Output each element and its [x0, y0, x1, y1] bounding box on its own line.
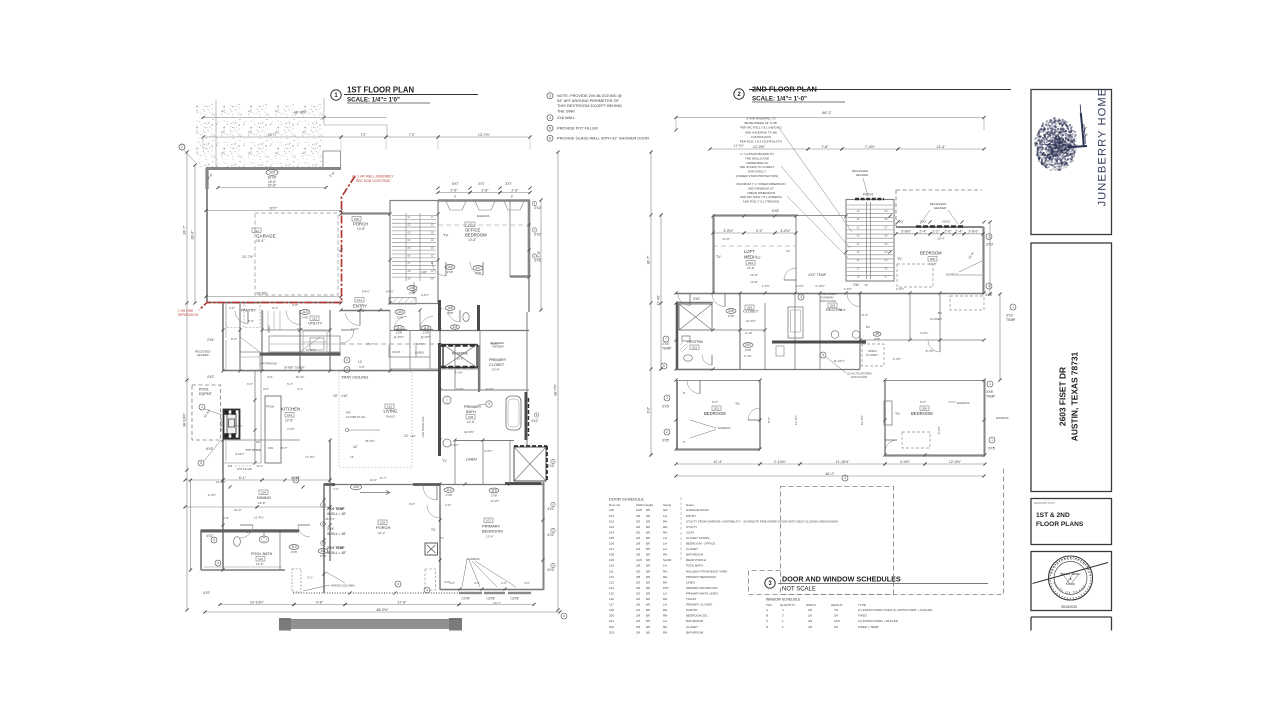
svg-text:4'-0½": 4'-0½" — [900, 460, 911, 464]
svg-text:8’: 8’ — [511, 195, 514, 199]
svg-text:GARAGE DOOR: GARAGE DOOR — [686, 508, 710, 512]
svg-text:BEDROOM: BEDROOM — [920, 251, 942, 256]
garage walls — [206, 151, 341, 303]
svg-text:112: 112 — [254, 229, 259, 233]
svg-text:D/W: D/W — [268, 446, 274, 450]
svg-text:RESERVE: RESERVE — [452, 352, 469, 356]
svg-text:TRASH: TRASH — [266, 405, 275, 409]
plan1 scattered tick arrows — [221, 186, 544, 594]
svg-text:PRIMARY BATHROOM: PRIMARY BATHROOM — [686, 586, 718, 590]
svg-text:4/0: 4/0 — [808, 625, 813, 629]
svg-text:2/6: 2/6 — [636, 630, 641, 634]
svg-text:WIDTH: WIDTH — [806, 603, 816, 607]
section cut gray bar — [279, 618, 462, 631]
svg-text:3'-8": 3'-8" — [481, 188, 489, 192]
svg-text:3'X2': 3'X2' — [534, 206, 542, 210]
svg-text:107: 107 — [486, 519, 491, 523]
svg-text:109: 109 — [609, 558, 614, 562]
extension line above garage — [215, 100, 217, 167]
svg-text:2/0: 2/0 — [636, 530, 641, 534]
primary bedroom label and tv niche — [423, 486, 516, 590]
svg-text:POT FILLER: POT FILLER — [246, 448, 261, 452]
svg-text:1: 1 — [991, 438, 993, 442]
svg-text:107: 107 — [475, 266, 481, 270]
closets under stairs tags — [362, 262, 483, 295]
svg-text:8-10½": 8-10½" — [236, 452, 245, 456]
svg-text:LH: LH — [663, 591, 667, 595]
svg-text:THE STAIRS TO COMPLY: THE STAIRS TO COMPLY — [739, 165, 775, 169]
svg-text:B4: B4 — [866, 325, 870, 329]
svg-text:TAG: TAG — [766, 603, 773, 607]
svg-text:POOL BATH: POOL BATH — [686, 564, 703, 568]
svg-text:1ST FLOOR PLAN: 1ST FLOOR PLAN — [347, 86, 415, 95]
svg-text:FIXED + TEMP: FIXED + TEMP — [858, 625, 879, 629]
svg-text:BATHROOM: BATHROOM — [686, 630, 704, 634]
svg-text:2'-10": 2'-10" — [745, 331, 753, 335]
svg-text:CLOSET: CLOSET — [686, 547, 698, 551]
svg-text:4'X2': 4'X2' — [531, 419, 539, 423]
svg-text:100: 100 — [269, 171, 275, 175]
svg-text:PANTRY: PANTRY — [686, 608, 698, 612]
svg-text:17'-0½": 17'-0½" — [305, 455, 315, 459]
svg-text:110: 110 — [609, 564, 614, 568]
svg-text:9'-0": 9'-0" — [920, 400, 926, 404]
svg-text:HEADER: HEADER — [197, 353, 209, 357]
svg-text:9/0: 9/0 — [646, 514, 651, 518]
svg-text:110: 110 — [302, 310, 308, 314]
svg-text:205: 205 — [930, 257, 935, 261]
svg-text:POT FILLER: POT FILLER — [237, 467, 252, 471]
svg-text:6'-1": 6'-1" — [272, 306, 278, 310]
svg-text:2/4: 2/4 — [636, 547, 641, 551]
svg-text:15': 15' — [757, 256, 761, 260]
svg-text:PER IRC R311.7.8.1 (HEIGHT): PER IRC R311.7.8.1 (HEIGHT) — [740, 126, 782, 130]
svg-text:D/4: D/4 — [256, 440, 261, 444]
svg-text:GARAGE: GARAGE — [256, 234, 276, 239]
address box — [1031, 243, 1112, 492]
svg-text:13'-6": 13'-6" — [486, 535, 494, 539]
svg-text:EGRESS: EGRESS — [957, 401, 970, 405]
svg-text:HEADER: HEADER — [934, 206, 947, 210]
svg-text:103: 103 — [609, 525, 614, 529]
description box — [1031, 499, 1112, 545]
svg-text:2603 FISET DR: 2603 FISET DR — [1058, 367, 1068, 426]
pantry utility mud labels — [231, 303, 405, 352]
svg-text:28'-7": 28'-7" — [183, 225, 187, 235]
plan2 scattered ticks — [649, 128, 986, 456]
svg-text:09/16/2025: 09/16/2025 — [1061, 605, 1077, 609]
svg-text:ENTRY: ENTRY — [353, 304, 367, 309]
plan2 linen closets right band — [862, 296, 984, 366]
svg-text:RH: RH — [663, 553, 667, 557]
svg-text:38'-10½": 38'-10½" — [183, 412, 187, 427]
svg-text:PANTRY: PANTRY — [241, 309, 257, 313]
bedroom 205 label — [897, 251, 982, 288]
svg-text:FIXED: FIXED — [858, 614, 868, 618]
svg-text:HEIGHT: HEIGHT — [831, 603, 843, 607]
svg-text:36" RANGE: 36" RANGE — [220, 418, 223, 431]
svg-text:4'-6½": 4'-6½" — [920, 331, 928, 335]
plan1 left wall inner lines — [189, 306, 282, 572]
svg-text:12': 12' — [404, 434, 409, 438]
svg-text:4'-6½": 4'-6½" — [450, 443, 458, 447]
svg-text:DOOR AND WINDOW SCHEDULES: DOOR AND WINDOW SCHEDULES — [782, 575, 901, 584]
svg-text:12': 12' — [358, 360, 363, 364]
schedule dashed boundary — [749, 468, 1004, 595]
svg-text:RH: RH — [663, 575, 667, 579]
svg-text:8’: 8’ — [454, 195, 457, 199]
plan1 interior walls — [201, 300, 529, 570]
svg-text:116: 116 — [491, 489, 497, 493]
svg-text:2'X8': 2'X8' — [291, 550, 298, 554]
svg-text:D/4: D/4 — [228, 464, 233, 468]
garage labels — [204, 170, 342, 298]
svg-text:EGRESS: EGRESS — [946, 273, 959, 277]
window schedule — [766, 598, 933, 629]
architect stamp seal — [1033, 556, 1109, 609]
svg-text:103: 103 — [397, 310, 403, 314]
svg-text:114: 114 — [609, 586, 614, 590]
svg-text:4'-6½": 4'-6½" — [896, 287, 904, 291]
svg-text:2/8: 2/8 — [636, 575, 641, 579]
svg-text:␴2'X3': ␴2'X3' — [920, 220, 927, 224]
svg-text:BATHROOM: BATHROOM — [686, 619, 704, 623]
svg-text:TV: TV — [735, 402, 740, 406]
svg-text:AND HANDRAIL TO BE: AND HANDRAIL TO BE — [745, 130, 777, 134]
svg-text:2/6: 2/6 — [636, 625, 641, 629]
svg-text:DESCRIPTION: DESCRIPTION — [1034, 501, 1055, 505]
svg-text:MAXIMUM 7 ¾" RISER DIMENSION: MAXIMUM 7 ¾" RISER DIMENSION — [736, 182, 785, 186]
svg-text:MUD: MUD — [267, 325, 271, 333]
svg-text:7'2": 7'2" — [361, 133, 368, 137]
svg-text:LINEN: LINEN — [686, 580, 695, 584]
svg-text:13'-4": 13'-4" — [936, 145, 946, 149]
svg-text:201: 201 — [609, 619, 614, 623]
svg-text:2ND FLOOR: 2ND FLOOR — [820, 299, 836, 303]
svg-text:8/0: 8/0 — [646, 625, 651, 629]
svg-text:4'-0½": 4'-0½" — [796, 284, 804, 288]
plan1 bottom window tags and dims — [203, 576, 567, 620]
svg-text:4'X2': 4'X2' — [547, 568, 555, 572]
red 1hr fire separation wall — [178, 175, 394, 318]
svg-text:HRT/FRIDGE: HRT/FRIDGE — [261, 362, 278, 366]
svg-text:113: 113 — [312, 317, 317, 321]
svg-text:12'-0": 12'-0" — [370, 478, 377, 482]
svg-text:4'-8": 4'-8" — [229, 306, 235, 310]
svg-text:WOOD COLUMN: WOOD COLUMN — [331, 584, 355, 588]
plan1 kitchen counter lines — [223, 304, 327, 464]
svg-text:20'7": 20'7" — [268, 133, 277, 137]
svg-text:2'X8': 2'X8' — [409, 291, 416, 295]
svg-text:36'-0½": 36'-0½" — [325, 517, 335, 521]
svg-text:EGRESS: EGRESS — [467, 557, 480, 561]
svg-text:K": K" — [440, 327, 443, 331]
svg-text:11'-0½": 11'-0½" — [306, 348, 316, 352]
svg-text:8/0: 8/0 — [646, 530, 651, 534]
svg-text:RH: RH — [663, 608, 667, 612]
svg-text:W.SILL = 48": W.SILL = 48" — [327, 512, 347, 516]
svg-text:8/0: 8/0 — [646, 525, 651, 529]
svg-text:RH: RH — [663, 525, 667, 529]
svg-text:Width Height: Width Height — [636, 503, 653, 507]
svg-text:2'-6½": 2'-6½" — [456, 387, 464, 391]
svg-text:×12': ×12' — [410, 434, 416, 438]
architect stamp box — [1031, 552, 1112, 611]
svg-text:36'-0½": 36'-0½" — [365, 439, 375, 443]
svg-text:2'X8': 2'X8' — [491, 494, 498, 498]
plan2 stairs — [847, 202, 893, 287]
svg-text:CLOSET: CLOSET — [930, 317, 942, 321]
svg-text:3/0: 3/0 — [808, 608, 813, 612]
svg-text:LINEN: LINEN — [466, 458, 477, 462]
svg-text:PRIMARY BEDROOM: PRIMARY BEDROOM — [686, 575, 716, 579]
plan1 interior dim scatter — [228, 306, 499, 584]
svg-text:7'-4½": 7'-4½" — [865, 145, 876, 149]
svg-text:3'-8": 3'-8" — [449, 581, 455, 585]
svg-text:205: 205 — [747, 306, 752, 310]
window sill labels left of rear porch — [321, 503, 347, 555]
svg-text:3'X5': 3'X5' — [988, 447, 996, 451]
svg-text:2/0: 2/0 — [636, 580, 641, 584]
svg-text:LH: LH — [663, 564, 667, 568]
juneberry tree logo — [1034, 105, 1087, 171]
plan1 stairs — [392, 213, 436, 293]
svg-text:TV: TV — [431, 528, 436, 532]
plan2 4x2 temp tag — [762, 273, 904, 291]
svg-text:MEDIA: MEDIA — [744, 255, 757, 260]
svg-text:2/6: 2/6 — [636, 619, 641, 623]
svg-text:5'-4": 5'-4" — [297, 387, 303, 391]
svg-text:Swing: Swing — [663, 503, 672, 507]
svg-text:FLOOR PLUG: FLOOR PLUG — [346, 415, 366, 419]
svg-text:PORCH: PORCH — [376, 525, 391, 530]
svg-text:SCALE: 1/4"= 1'0": SCALE: 1/4"= 1'0" — [347, 97, 400, 104]
svg-text:2'-8": 2'-8" — [223, 516, 229, 520]
svg-text:12'-8": 12'-8" — [285, 419, 293, 423]
svg-text:2'-10½": 2'-10½" — [774, 460, 787, 464]
svg-text:2'-4": 2'-4" — [955, 230, 963, 234]
svg-text:CLOSET: CLOSET — [743, 310, 759, 314]
svg-text:2'X8': 2'X8' — [447, 270, 454, 274]
svg-text:3: 3 — [488, 402, 490, 406]
svg-text:3'X5': 3'X5' — [662, 439, 670, 443]
svg-text:2: 2 — [666, 430, 668, 434]
svg-text:LH: LH — [663, 547, 667, 551]
svg-text:19'-4": 19'-4" — [256, 239, 265, 243]
svg-text:108: 108 — [468, 415, 473, 419]
svg-text:11'-8½": 11'-8½" — [216, 480, 226, 484]
svg-text:111: 111 — [609, 569, 614, 573]
svg-text:3'-0½": 3'-0½" — [723, 229, 734, 233]
svg-text:BEDROOM: BEDROOM — [482, 529, 503, 534]
svg-text:111: 111 — [320, 549, 325, 553]
svg-text:PROVIDE GLASS WALL WITH 32" SH: PROVIDE GLASS WALL WITH 32" SHOWER DOOR — [557, 136, 649, 141]
svg-text:4: 4 — [549, 116, 551, 120]
sheet title 2nd floor plan — [734, 85, 1011, 103]
kitchen label — [203, 405, 300, 498]
svg-text:2/6: 2/6 — [834, 625, 839, 629]
svg-text:12'4½": 12'4½" — [234, 424, 243, 428]
svg-text:8'-0": 8'-0" — [248, 319, 254, 323]
pool bath fixtures and label — [201, 516, 328, 566]
entry label — [353, 298, 367, 313]
porch label — [352, 217, 368, 231]
svg-text:12'-4": 12'-4" — [713, 460, 723, 464]
svg-text:10'-2": 10'-2" — [378, 531, 386, 535]
svg-text:8/0: 8/0 — [646, 519, 651, 523]
sheet title 1st floor plan — [331, 86, 478, 104]
svg-text:10'-8": 10'-8" — [456, 357, 463, 361]
svg-text:AUSTIN, TEXAS 78731: AUSTIN, TEXAS 78731 — [1070, 351, 1080, 441]
svg-text:BATH: BATH — [466, 410, 476, 414]
svg-text:2'-10": 2'-10" — [744, 354, 752, 358]
svg-text:20'-7½": 20'-7½" — [242, 255, 254, 259]
svg-text:7/0: 7/0 — [834, 608, 839, 612]
svg-text:CLOSET: CLOSET — [686, 625, 698, 629]
plan1 left tags and recessed header notes — [195, 338, 214, 595]
svg-text:THE WALLS AND: THE WALLS AND — [745, 156, 770, 160]
svg-text:46'-2": 46'-2" — [822, 111, 832, 115]
svg-text:VAULT: VAULT — [386, 415, 395, 419]
primary closet label — [489, 341, 507, 372]
svg-text:106: 106 — [447, 265, 453, 269]
svg-text:(1) 3/0X2/0 FIXED OVER (1) 3/0: (1) 3/0X2/0 FIXED OVER (1) 3/0X5/0 CSMT … — [858, 608, 933, 612]
svg-text:8/0: 8/0 — [646, 608, 651, 612]
svg-text:205: 205 — [728, 309, 734, 313]
svg-text:8/0: 8/0 — [646, 586, 651, 590]
svg-text:COAT: COAT — [392, 350, 400, 354]
svg-text:2'-6": 2'-6" — [450, 188, 458, 192]
svg-text:4'-10½": 4'-10½" — [815, 284, 825, 288]
svg-text:10'-0½": 10'-0½" — [490, 499, 499, 503]
plan2 left restroom X closet — [661, 297, 712, 369]
svg-text:19: 19 — [864, 283, 868, 287]
svg-text:BEDROOM: BEDROOM — [465, 233, 487, 238]
svg-text:TEMP: TEMP — [662, 347, 672, 351]
svg-text:20'7": 20'7" — [270, 206, 279, 210]
svg-text:POOL: POOL — [199, 388, 209, 392]
svg-text:3'-0½": 3'-0½" — [780, 229, 791, 233]
svg-text:BEDROOM: BEDROOM — [704, 411, 726, 416]
svg-text:106: 106 — [609, 542, 614, 546]
svg-text:2/4: 2/4 — [636, 597, 641, 601]
svg-text:TRAY CEILING: TRAY CEILING — [341, 375, 368, 380]
svg-text:9-4½": 9-4½" — [362, 290, 370, 294]
svg-text:115: 115 — [609, 591, 614, 595]
svg-text:1ST & 2ND: 1ST & 2ND — [1036, 512, 1070, 519]
svg-text:@ 4'6½": @ 4'6½" — [421, 335, 432, 339]
svg-text:3'-8": 3'-8" — [444, 580, 450, 584]
kitchen range dark fixture — [220, 410, 240, 439]
svg-text:100: 100 — [609, 508, 614, 512]
kitchen cabinets and dark counter bar — [240, 336, 341, 370]
svg-text:201: 201 — [714, 407, 719, 411]
svg-text:12'-0½": 12'-0½" — [794, 415, 798, 425]
svg-text:117: 117 — [609, 603, 614, 607]
svg-text:2'X8': 2'X8' — [728, 314, 735, 318]
svg-text:¾" GYPSUM BOARD TO: ¾" GYPSUM BOARD TO — [740, 152, 774, 156]
svg-text:BATHROOM: BATHROOM — [686, 553, 704, 557]
svg-text:PRIMARY: PRIMARY — [489, 358, 507, 362]
svg-text:Notes: Notes — [686, 503, 694, 507]
svg-text:TV: TV — [440, 536, 444, 540]
plan2 double vanity dark counter — [680, 331, 872, 379]
plan2 recessed headers dark dashes — [852, 169, 985, 241]
svg-text:2/0: 2/0 — [636, 591, 641, 595]
plan2 exterior walls — [676, 190, 985, 456]
svg-text:12'-0½": 12'-0½" — [753, 145, 766, 149]
svg-text:CLOSET: CLOSET — [866, 353, 878, 357]
svg-text:12/0: 12/0 — [636, 558, 642, 562]
svg-text:4'-0½": 4'-0½" — [491, 342, 499, 346]
svg-text:162: 162 — [387, 405, 392, 409]
svg-text:8/0: 8/0 — [646, 536, 651, 540]
svg-text:TEMP: TEMP — [1006, 318, 1016, 322]
svg-text:104: 104 — [261, 491, 266, 495]
svg-text:DOOR SCHEDULE: DOOR SCHEDULE — [609, 497, 644, 502]
svg-text:2'-6½": 2'-6½" — [484, 449, 492, 453]
svg-text:2'X4': 2'X4' — [327, 527, 334, 531]
svg-text:200: 200 — [609, 614, 614, 618]
plan2 loft interior details — [713, 237, 796, 280]
plan2 bottom dims — [674, 460, 986, 481]
reserve box with X — [441, 345, 478, 368]
svg-text:8'-6": 8'-6" — [647, 407, 651, 413]
svg-text:3/6: 3/6 — [834, 614, 839, 618]
dining tray and label — [183, 440, 331, 520]
svg-text:THE SINK: THE SINK — [557, 108, 575, 113]
svg-text:JUNEBERRY HOME: JUNEBERRY HOME — [1097, 88, 1109, 207]
svg-text:LH: LH — [663, 619, 667, 623]
svg-text:8/0: 8/0 — [646, 580, 651, 584]
keyed notes list — [547, 93, 649, 142]
svg-text:2'X8': 2'X8' — [423, 331, 430, 335]
svg-text:12'-8": 12'-8" — [750, 273, 758, 277]
svg-text:␹2'X4': ␹2'X4' — [207, 338, 214, 342]
plan1 interior door arcs — [235, 310, 460, 538]
svg-text:6: 6 — [549, 137, 551, 141]
svg-text:BE BETWEEN 34" & 38": BE BETWEEN 34" & 38" — [745, 121, 778, 125]
logo box — [1031, 90, 1112, 235]
svg-text:2'X8': 2'X8' — [396, 331, 403, 335]
svg-text:REAR PORCH: REAR PORCH — [686, 558, 706, 562]
svg-text:⑄3'X6': ⑄3'X6' — [510, 597, 519, 601]
svg-text:BEDROOM - OFFICE: BEDROOM - OFFICE — [686, 542, 715, 546]
svg-text:RH: RH — [663, 597, 667, 601]
svg-text:SLDR: SLDR — [663, 558, 672, 562]
svg-text:×12': ×12' — [341, 394, 348, 398]
svg-text:9'-0": 9'-0" — [712, 400, 718, 404]
svg-text:2'X8': 2'X8' — [397, 316, 404, 320]
title block column — [0, 0, 1, 1]
svg-text:B4: B4 — [938, 311, 942, 315]
svg-text:RH: RH — [663, 630, 667, 634]
linen label — [450, 443, 492, 462]
svg-text:108: 108 — [447, 306, 453, 310]
svg-text:8/0: 8/0 — [646, 619, 651, 623]
svg-text:12'-8": 12'-8" — [722, 237, 730, 241]
svg-text:8'-0½": 8'-0½" — [937, 426, 941, 434]
svg-text:1'-6½": 1'-6½" — [762, 284, 770, 288]
svg-text:EGRESS: EGRESS — [477, 214, 490, 218]
svg-text:101: 101 — [609, 514, 614, 518]
svg-text:2'X4' TEMP: 2'X4' TEMP — [327, 546, 345, 550]
svg-text:13'-8": 13'-8" — [256, 562, 264, 566]
svg-text:5: 5 — [200, 461, 202, 465]
svg-text:5'-4": 5'-4" — [287, 382, 293, 386]
svg-text:CONTINUOUS: CONTINUOUS — [751, 135, 771, 139]
svg-text:BEDROOM 201: BEDROOM 201 — [686, 614, 708, 618]
